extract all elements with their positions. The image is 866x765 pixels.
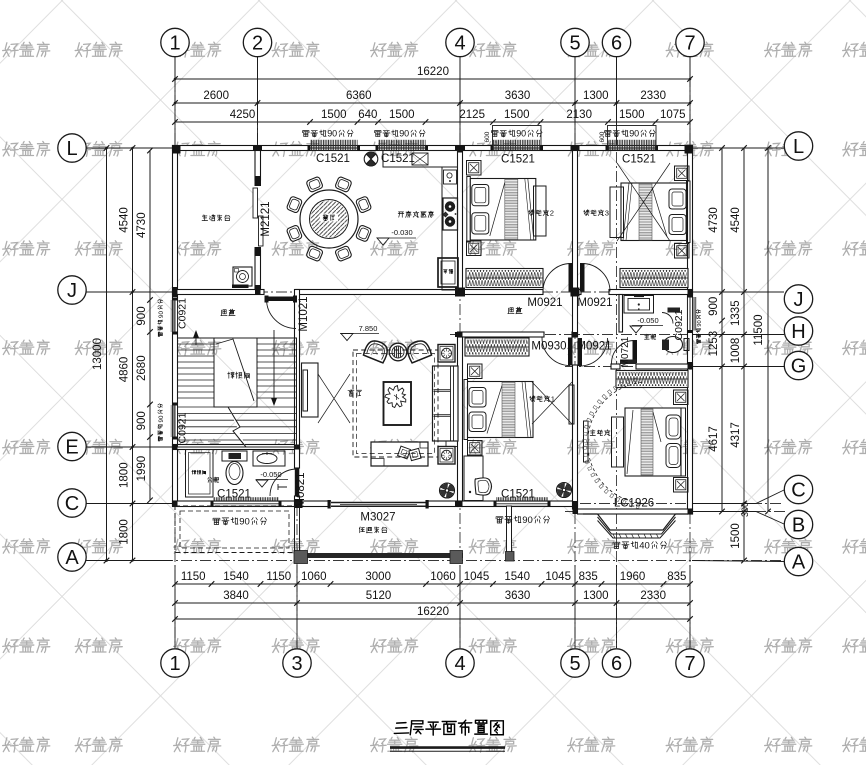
- svg-text:900: 900: [708, 297, 720, 316]
- svg-text:C0921: C0921: [177, 412, 189, 443]
- svg-text:13000: 13000: [92, 338, 104, 370]
- svg-text:C0921: C0921: [177, 298, 189, 329]
- svg-text:1: 1: [169, 653, 180, 675]
- svg-text:835: 835: [579, 571, 598, 583]
- svg-text:1: 1: [551, 394, 555, 403]
- svg-text:B: B: [792, 515, 805, 537]
- svg-text:2: 2: [550, 208, 554, 217]
- svg-text:1990: 1990: [136, 456, 148, 482]
- svg-text:600: 600: [484, 131, 491, 142]
- svg-text:4540: 4540: [119, 207, 131, 233]
- svg-text:5: 5: [569, 33, 580, 55]
- svg-text:900: 900: [136, 306, 148, 325]
- svg-text:1060: 1060: [301, 571, 327, 583]
- svg-text:1045: 1045: [545, 571, 571, 583]
- svg-text:C1521: C1521: [501, 154, 535, 166]
- svg-text:2: 2: [252, 33, 263, 55]
- svg-text:M0921: M0921: [576, 341, 611, 353]
- svg-text:1500: 1500: [321, 109, 347, 121]
- svg-text:L: L: [66, 138, 77, 160]
- svg-text:3630: 3630: [505, 90, 531, 102]
- svg-text:1500: 1500: [730, 523, 742, 549]
- svg-text:1800: 1800: [119, 462, 131, 488]
- svg-text:1300: 1300: [583, 590, 609, 602]
- svg-text:1335: 1335: [730, 300, 742, 326]
- svg-text:4: 4: [454, 653, 465, 675]
- svg-text:6360: 6360: [346, 90, 372, 102]
- svg-text:900: 900: [136, 411, 148, 430]
- svg-text:90: 90: [399, 128, 409, 138]
- svg-text:1800: 1800: [119, 519, 131, 545]
- svg-text:3000: 3000: [365, 571, 391, 583]
- svg-text:C0921: C0921: [673, 309, 685, 340]
- svg-text:1008: 1008: [730, 338, 742, 364]
- svg-text:1045: 1045: [464, 571, 490, 583]
- svg-text:H: H: [791, 321, 805, 343]
- svg-text:600: 600: [599, 131, 606, 142]
- svg-text:90: 90: [516, 128, 526, 138]
- svg-text:90: 90: [522, 515, 533, 526]
- svg-text:90: 90: [697, 320, 703, 326]
- svg-text:4730: 4730: [136, 212, 148, 238]
- svg-text:5: 5: [569, 653, 580, 675]
- svg-text:1060: 1060: [430, 571, 456, 583]
- svg-text:4: 4: [454, 33, 465, 55]
- svg-text:M2121: M2121: [260, 201, 272, 236]
- svg-text:1500: 1500: [619, 109, 645, 121]
- svg-text:4730: 4730: [708, 207, 720, 233]
- svg-text:1150: 1150: [181, 571, 206, 583]
- svg-text:C: C: [65, 493, 79, 515]
- svg-text:1540: 1540: [223, 571, 249, 583]
- svg-text:2130: 2130: [566, 109, 592, 121]
- svg-text:M0921: M0921: [527, 297, 562, 309]
- svg-text:90: 90: [158, 311, 165, 318]
- svg-text:2680: 2680: [136, 355, 148, 381]
- svg-text:90: 90: [629, 128, 639, 138]
- svg-text:C1521: C1521: [622, 154, 656, 166]
- svg-text:3630: 3630: [505, 590, 531, 602]
- svg-text:7: 7: [684, 33, 695, 55]
- svg-text:A: A: [792, 552, 806, 574]
- svg-text:1150: 1150: [266, 571, 291, 583]
- svg-text:90: 90: [327, 128, 337, 138]
- svg-text:1960: 1960: [620, 571, 646, 583]
- svg-text:1300: 1300: [583, 90, 609, 102]
- svg-text:4250: 4250: [230, 109, 256, 121]
- svg-text:3840: 3840: [223, 590, 249, 602]
- svg-text:1075: 1075: [660, 109, 686, 121]
- svg-text:L: L: [793, 136, 804, 158]
- svg-text:-0.030: -0.030: [391, 228, 412, 237]
- svg-text:M0821: M0821: [295, 472, 307, 507]
- svg-text:M1021: M1021: [298, 296, 310, 331]
- svg-text:11500: 11500: [753, 314, 765, 345]
- svg-text:1500: 1500: [389, 109, 415, 121]
- svg-text:40: 40: [639, 540, 650, 551]
- svg-text:E: E: [65, 437, 78, 459]
- svg-text:1540: 1540: [504, 571, 530, 583]
- svg-text:LC1926: LC1926: [614, 498, 654, 510]
- svg-text:C1521: C1521: [501, 489, 535, 501]
- svg-text:M0921: M0921: [577, 297, 612, 309]
- svg-text:J: J: [794, 289, 804, 311]
- svg-text:2330: 2330: [640, 590, 666, 602]
- svg-text:5120: 5120: [366, 590, 392, 602]
- svg-text:4860: 4860: [119, 357, 131, 383]
- svg-text:835: 835: [667, 571, 686, 583]
- svg-text:C1521: C1521: [381, 153, 415, 165]
- svg-text:M0721: M0721: [620, 336, 631, 367]
- svg-text:4540: 4540: [730, 207, 742, 233]
- svg-text:3: 3: [291, 653, 302, 675]
- svg-text:G: G: [791, 356, 807, 378]
- svg-text:2600: 2600: [203, 90, 229, 102]
- svg-text:90: 90: [158, 415, 165, 422]
- svg-text:16220: 16220: [417, 66, 449, 78]
- svg-text:2330: 2330: [640, 90, 666, 102]
- svg-text:-0.050: -0.050: [637, 316, 658, 325]
- svg-text:7: 7: [684, 653, 695, 675]
- svg-text:M0930: M0930: [531, 341, 566, 353]
- svg-text:A: A: [65, 547, 79, 569]
- svg-text:3: 3: [605, 208, 609, 217]
- svg-text:6: 6: [611, 33, 622, 55]
- svg-text:1: 1: [169, 33, 180, 55]
- svg-text:4617: 4617: [708, 426, 720, 452]
- svg-text:6: 6: [611, 653, 622, 675]
- svg-text:90: 90: [239, 516, 250, 527]
- svg-text:300: 300: [740, 502, 750, 517]
- svg-text:640: 640: [358, 109, 377, 121]
- svg-text:2125: 2125: [459, 109, 485, 121]
- svg-text:16220: 16220: [417, 606, 449, 618]
- svg-text:C: C: [791, 480, 805, 502]
- svg-text:J: J: [67, 280, 77, 302]
- svg-text:7.850: 7.850: [359, 324, 378, 333]
- svg-text:1500: 1500: [504, 109, 530, 121]
- svg-text:C1521: C1521: [217, 489, 251, 501]
- svg-text:-0.050: -0.050: [260, 470, 281, 479]
- svg-text:M3027: M3027: [360, 512, 395, 524]
- svg-text:4317: 4317: [730, 422, 742, 448]
- svg-text:C1521: C1521: [316, 153, 350, 165]
